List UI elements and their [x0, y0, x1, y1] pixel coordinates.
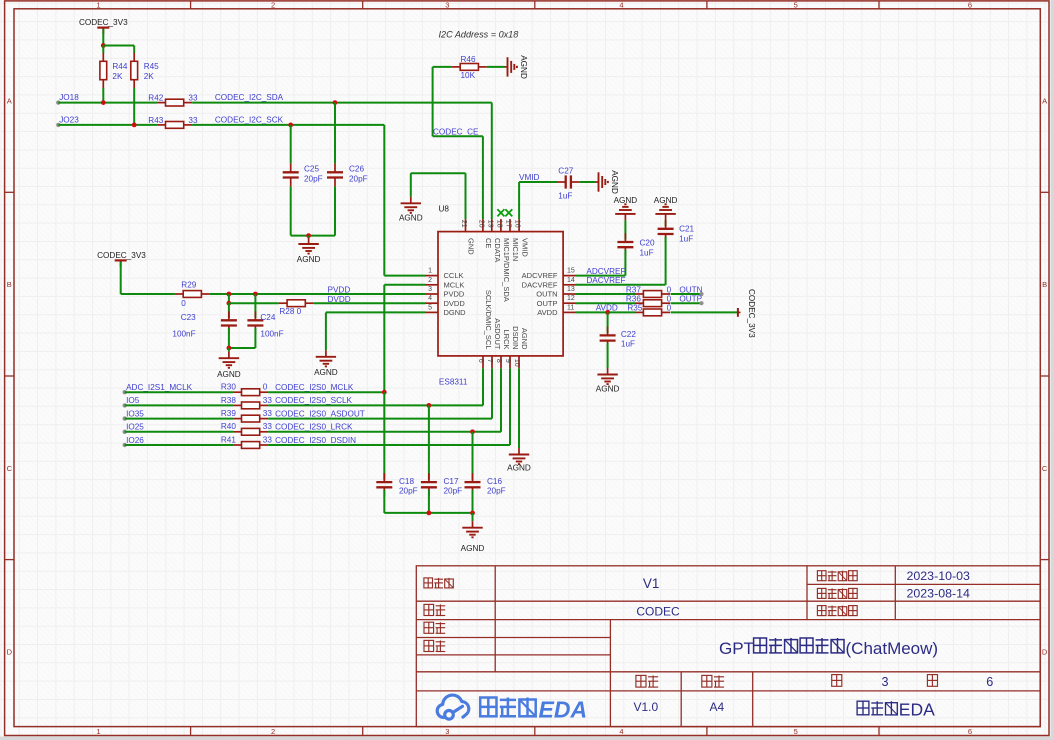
capacitor C21	[665, 220, 667, 226]
wire DSDIN corner to pin9	[509, 368, 511, 445]
title label 页	[832, 675, 842, 687]
svg-text:AGND: AGND	[519, 55, 528, 79]
resistor R43	[157, 124, 165, 126]
svg-text:CODEC_I2S0_LRCK: CODEC_I2S0_LRCK	[275, 423, 353, 432]
port JO23	[56, 123, 60, 127]
svg-text:R30: R30	[221, 383, 236, 392]
wire JO18 to R42	[58, 102, 157, 104]
pins U8 bottom stubs	[483, 356, 519, 368]
ground AGND below C23	[228, 348, 230, 352]
wire SCK down to CCLK	[383, 125, 385, 276]
svg-text:DVDD: DVDD	[444, 299, 466, 308]
wire AGND pin10 down	[518, 368, 520, 448]
svg-text:U8: U8	[439, 204, 450, 213]
port OUTN	[699, 292, 703, 296]
svg-text:SCLK/DMIC_SCL: SCLK/DMIC_SCL	[484, 290, 493, 350]
wire R36 to OUTP port	[671, 302, 702, 304]
svg-text:20pF: 20pF	[399, 487, 418, 496]
svg-text:CODEC_I2S0_MCLK: CODEC_I2S0_MCLK	[275, 383, 354, 392]
ground AGND below caps	[472, 513, 474, 521]
resistor R28	[279, 302, 287, 304]
wire R35 to CODEC_3V3	[671, 311, 738, 313]
svg-text:6: 6	[968, 727, 972, 736]
svg-text:DSDIN: DSDIN	[511, 326, 520, 349]
svg-text:C: C	[1042, 464, 1048, 473]
svg-text:OUTP: OUTP	[537, 299, 558, 308]
svg-text:1: 1	[428, 268, 432, 275]
svg-text:JO23: JO23	[59, 116, 79, 125]
svg-text:AGND: AGND	[596, 384, 620, 393]
svg-text:2: 2	[271, 1, 275, 10]
frame row letters right	[1042, 97, 1048, 657]
svg-text:4: 4	[619, 727, 623, 736]
svg-text:C20: C20	[640, 238, 655, 247]
svg-text:7: 7	[486, 359, 493, 363]
port JO18	[56, 100, 60, 104]
svg-text:R40: R40	[221, 422, 236, 431]
wire LRCK corner to pin8	[500, 368, 502, 432]
title label 尺寸	[702, 675, 724, 687]
wire CODEC_I2C_SDA	[192, 102, 492, 104]
svg-text:2023-08-14: 2023-08-14	[907, 587, 970, 601]
svg-text:MIC1N: MIC1N	[511, 238, 520, 261]
svg-text:R36: R36	[626, 295, 641, 304]
svg-text:100nF: 100nF	[260, 329, 283, 338]
title label 图页	[424, 604, 445, 615]
resistor R46	[452, 66, 460, 68]
frame row ticks left	[5, 192, 14, 559]
svg-text:18: 18	[496, 220, 503, 228]
svg-text:9: 9	[504, 359, 511, 363]
svg-text:R37: R37	[626, 285, 641, 294]
title label 原理图	[424, 578, 454, 588]
svg-text:C24: C24	[260, 313, 275, 322]
svg-text:20pF: 20pF	[349, 174, 368, 183]
node junction AVDD C22	[605, 310, 610, 315]
svg-text:1uF: 1uF	[558, 192, 572, 201]
frame row ticks right	[1040, 192, 1049, 559]
wire C20 to ADCVREF	[624, 250, 626, 276]
wire caps bottom rail	[383, 490, 385, 513]
svg-text:CDATA: CDATA	[493, 238, 502, 262]
node junction R44-SDA	[101, 100, 106, 105]
wire R46 right to AGND	[487, 66, 505, 68]
port IO5	[123, 403, 127, 407]
no-connect X pin 18	[497, 209, 504, 216]
wire C25/C26 bottoms join	[291, 235, 335, 237]
capacitor C27	[557, 181, 566, 183]
wire OUTP pin12	[576, 302, 636, 304]
wire R28 to DVDD pin4	[314, 302, 426, 304]
wire IO25 to R40	[125, 431, 233, 433]
capacitor C20	[624, 220, 626, 239]
wire R46 left corner	[433, 66, 452, 68]
svg-text:(ChatMeow): (ChatMeow)	[846, 639, 939, 658]
svg-text:13: 13	[567, 286, 575, 293]
svg-text:5: 5	[428, 304, 432, 311]
svg-text:3: 3	[445, 727, 449, 736]
svg-text:0: 0	[667, 304, 672, 313]
node junction PVDD C24 branch	[253, 292, 258, 297]
svg-text:CODEC_3V3: CODEC_3V3	[747, 289, 756, 338]
svg-text:DACVREF: DACVREF	[522, 280, 558, 289]
svg-text:R38: R38	[221, 396, 236, 405]
svg-text:0: 0	[667, 285, 672, 294]
title label 更新日期	[817, 571, 857, 581]
svg-text:R42: R42	[148, 94, 163, 103]
svg-text:VMID: VMID	[519, 173, 540, 182]
wire SCLK corner to pin6	[482, 368, 484, 405]
svg-text:ASDOUT: ASDOUT	[493, 318, 502, 350]
wire C27 to AGND	[580, 181, 596, 183]
svg-text:2: 2	[271, 727, 275, 736]
no-connect X pin 17	[505, 209, 512, 216]
capacitor C26	[334, 103, 336, 164]
svg-text:C25: C25	[304, 165, 319, 174]
svg-text:DACVREF: DACVREF	[586, 276, 625, 285]
wire ADC_I2S1_MCLK to R30	[125, 391, 233, 393]
svg-text:AGND: AGND	[314, 368, 338, 377]
node junction C23 AGND	[227, 346, 232, 351]
svg-text:IO5: IO5	[126, 396, 140, 405]
power flag CODEC_3V3 right (rotated)	[737, 308, 739, 317]
wire DGND pin5 to AGND	[326, 311, 426, 313]
svg-text:33: 33	[263, 396, 273, 405]
title block grid	[416, 566, 1040, 727]
svg-text:CE: CE	[484, 238, 493, 248]
svg-text:V1: V1	[643, 576, 660, 591]
svg-text:20: 20	[478, 220, 485, 228]
svg-text:33: 33	[263, 435, 273, 444]
svg-text:A: A	[7, 97, 12, 106]
node junction C25-SCK	[288, 123, 293, 128]
node junction LRCK C16	[470, 429, 475, 434]
wire C23/C24 bottoms join	[228, 328, 230, 348]
wire CODEC_I2S0_SCLK	[268, 404, 483, 406]
svg-text:CODEC_3V3: CODEC_3V3	[79, 18, 128, 27]
svg-text:1: 1	[96, 1, 100, 10]
pins U8 left stubs	[426, 276, 439, 313]
svg-text:JO18: JO18	[59, 93, 79, 102]
resistor R38	[233, 404, 241, 406]
svg-text:B: B	[7, 280, 12, 289]
svg-text:B: B	[1042, 280, 1047, 289]
svg-text:IO25: IO25	[126, 423, 144, 432]
svg-text:R39: R39	[221, 409, 236, 418]
wire CODEC_CE to pin 20	[433, 135, 483, 137]
frame row letters left	[7, 97, 13, 657]
svg-text:C16: C16	[487, 477, 502, 486]
capacitor C25	[290, 125, 292, 163]
svg-text:DVDD: DVDD	[328, 295, 351, 304]
svg-text:C: C	[7, 464, 13, 473]
svg-text:14: 14	[567, 277, 575, 284]
wire DVDD row	[228, 294, 230, 303]
ground AGND left of U8	[410, 197, 412, 204]
svg-text:C18: C18	[399, 477, 414, 486]
node junction C26-SDA	[333, 100, 338, 105]
svg-text:10K: 10K	[461, 71, 476, 80]
title label 绘制	[424, 622, 445, 633]
svg-text:ADCVREF: ADCVREF	[586, 267, 625, 276]
node junction MCLK C18	[382, 390, 387, 395]
svg-text:A4: A4	[710, 700, 725, 714]
svg-text:33: 33	[188, 94, 198, 103]
svg-text:OUTP: OUTP	[679, 295, 702, 304]
ground AGND right of R46 (rotated)	[505, 66, 508, 68]
resistor R29	[175, 293, 183, 295]
title value 嘉立创EDA	[857, 701, 897, 715]
svg-text:C27: C27	[558, 167, 573, 176]
svg-text:IO26: IO26	[126, 436, 144, 445]
port OUTP	[699, 301, 703, 305]
svg-text:10: 10	[513, 359, 520, 367]
wire R44 bottom to SDA junction	[102, 88, 104, 103]
svg-text:2K: 2K	[144, 72, 155, 81]
svg-text:R41: R41	[221, 435, 236, 444]
svg-text:V1.0: V1.0	[633, 700, 658, 714]
svg-text:5: 5	[794, 1, 798, 10]
svg-text:12: 12	[567, 295, 575, 302]
wire IO5 to R38	[125, 404, 233, 406]
svg-text:15: 15	[567, 268, 575, 275]
node junction C17 rail	[427, 511, 432, 516]
port IO35	[123, 416, 127, 420]
wire ADCVREF pin15	[576, 275, 626, 277]
svg-text:D: D	[7, 648, 13, 657]
resistor R44	[102, 53, 104, 61]
svg-text:PVDD: PVDD	[328, 285, 351, 294]
ground AGND below C22	[607, 368, 609, 375]
title label 创建日期	[817, 588, 857, 598]
svg-text:11: 11	[567, 304, 574, 311]
svg-text:20pF: 20pF	[304, 174, 323, 183]
wire IO35 to R39	[125, 418, 233, 420]
wire CODEC_I2S0_LRCK	[268, 431, 501, 433]
node junction C16 rail	[470, 511, 475, 516]
svg-text:R43: R43	[148, 116, 163, 125]
wire CODEC_I2S0_ASDOUT	[268, 418, 492, 420]
svg-text:0: 0	[263, 383, 268, 392]
svg-text:CODEC_I2S0_DSDIN: CODEC_I2S0_DSDIN	[275, 436, 356, 445]
wire SDA down to pin 19 CDATA	[491, 103, 493, 220]
svg-text:R35: R35	[627, 304, 642, 313]
svg-text:AGND: AGND	[217, 370, 241, 379]
svg-text:DGND: DGND	[444, 308, 467, 317]
svg-text:C21: C21	[679, 224, 694, 233]
svg-text:ES8311: ES8311	[439, 377, 468, 386]
power flag CODEC_3V3 top-left	[97, 27, 109, 29]
resistor R40	[233, 431, 241, 433]
svg-text:1uF: 1uF	[679, 234, 693, 243]
svg-text:CODEC_I2S0_ASDOUT: CODEC_I2S0_ASDOUT	[275, 409, 365, 418]
svg-text:D: D	[1042, 648, 1048, 657]
node junction PVDD C23 branch	[227, 292, 232, 297]
wire ASDOUT corner to pin7	[491, 368, 493, 418]
svg-text:CODEC: CODEC	[636, 605, 680, 619]
logo cloud icon	[437, 695, 469, 719]
svg-text:A: A	[1042, 97, 1047, 106]
svg-text:1: 1	[96, 727, 100, 736]
svg-text:MCLK: MCLK	[444, 280, 465, 289]
wire CODEC_I2C_SCK	[192, 124, 384, 126]
node junction C25-C26 AGND	[306, 233, 311, 238]
frame column numbers top	[96, 1, 972, 10]
svg-text:3: 3	[445, 1, 449, 10]
svg-text:I2C Address = 0x18: I2C Address = 0x18	[439, 30, 519, 40]
svg-text:33: 33	[263, 422, 273, 431]
resistor R37	[635, 293, 643, 295]
title label 版本	[636, 675, 658, 687]
svg-text:MIC1P/DMIC_SDA: MIC1P/DMIC_SDA	[502, 238, 511, 302]
op-amp U8 ES8311 body	[438, 232, 563, 356]
svg-text:OUTN: OUTN	[679, 285, 702, 294]
svg-text:IO35: IO35	[126, 409, 144, 418]
node junction R45-SCK	[132, 123, 137, 128]
svg-text:R29: R29	[181, 280, 196, 289]
svg-text:R45: R45	[144, 62, 159, 71]
wire R37 to OUTN port	[671, 293, 702, 295]
svg-text:AGND: AGND	[610, 170, 619, 194]
svg-text:100nF: 100nF	[172, 329, 195, 338]
svg-text:2023-10-03: 2023-10-03	[907, 569, 970, 583]
pins U8 right stubs	[563, 276, 575, 313]
wire CODEC_I2S0_DSDIN	[268, 444, 510, 446]
resistor R35	[635, 311, 643, 313]
wire JO23 to R43	[58, 124, 157, 126]
svg-text:3: 3	[881, 675, 888, 689]
wire C21 to DACVREF	[665, 237, 667, 285]
svg-text:1uF: 1uF	[640, 248, 654, 257]
svg-text:R46: R46	[461, 55, 476, 64]
svg-text:AGND: AGND	[520, 328, 529, 350]
svg-text:16: 16	[514, 220, 521, 228]
capacitor C16	[472, 432, 474, 480]
svg-text:2: 2	[428, 277, 432, 284]
wire R45 bottom to SCK junction	[133, 88, 135, 125]
ground AGND below pin10	[518, 448, 520, 455]
svg-text:C17: C17	[444, 477, 459, 486]
power flag CODEC_3V3 left-middle	[115, 259, 127, 261]
svg-text:C26: C26	[349, 165, 364, 174]
port ADC_I2S1_MCLK	[123, 390, 127, 394]
svg-text:33: 33	[263, 409, 273, 418]
svg-text:0: 0	[181, 299, 186, 308]
ground AGND right of C27 (rotated)	[596, 181, 599, 183]
port IO25	[123, 430, 127, 434]
svg-text:C22: C22	[621, 330, 636, 339]
wire VMID pin16 to C27	[518, 182, 520, 219]
svg-text:GPT: GPT	[719, 639, 754, 658]
svg-text:CODEC_3V3: CODEC_3V3	[97, 251, 146, 260]
node junction R44/R45 top	[101, 43, 106, 48]
svg-text:33: 33	[188, 116, 198, 125]
svg-text:AGND: AGND	[507, 464, 531, 473]
svg-text:3: 3	[428, 286, 432, 293]
wire AVDD pin11	[576, 311, 636, 313]
wire CODEC_3V3 down and right to R29	[120, 262, 122, 294]
title label 审阅	[424, 640, 445, 651]
title label 共	[927, 675, 937, 687]
ground AGND below DGND	[325, 350, 327, 357]
resistor R45	[133, 53, 135, 61]
svg-text:6: 6	[968, 1, 972, 10]
svg-text:EDA: EDA	[539, 697, 588, 723]
svg-text:2K: 2K	[112, 72, 123, 81]
svg-text:1uF: 1uF	[621, 340, 635, 349]
svg-text:ADCVREF: ADCVREF	[522, 271, 558, 280]
svg-text:CCLK: CCLK	[444, 271, 464, 280]
svg-text:CODEC_I2C_SDA: CODEC_I2C_SDA	[215, 93, 284, 102]
wire IO26 to R41	[125, 444, 233, 446]
resistor R41	[233, 444, 241, 446]
svg-text:AVDD: AVDD	[537, 308, 558, 317]
pins U8 top stubs	[466, 219, 520, 232]
svg-text:CODEC_I2S0_SCLK: CODEC_I2S0_SCLK	[275, 396, 352, 405]
svg-text:0: 0	[667, 295, 672, 304]
capacitor C23	[228, 303, 230, 318]
resistor R30	[233, 391, 241, 393]
capacitor C17	[428, 405, 430, 479]
svg-text:LRCK: LRCK	[502, 329, 511, 349]
ground AGND below C25/C26	[308, 236, 310, 238]
svg-text:4: 4	[619, 1, 623, 10]
frame column ticks top	[191, 1, 879, 9]
svg-text:AGND: AGND	[297, 255, 321, 264]
svg-text:AGND: AGND	[399, 214, 423, 223]
wire AGND to pin 21	[411, 172, 466, 174]
svg-text:R44: R44	[112, 62, 127, 71]
wire MCLK up to pin2	[383, 285, 385, 392]
svg-text:GND: GND	[467, 238, 476, 255]
title label 物料编码	[817, 606, 857, 616]
wire CODEC_3V3 to junction	[102, 29, 104, 46]
wire DACVREF pin14	[576, 284, 666, 286]
svg-text:4: 4	[428, 295, 432, 302]
svg-text:17: 17	[505, 220, 512, 228]
node junction SCLK C17	[427, 403, 432, 408]
port IO26	[123, 443, 127, 447]
resistor R39	[233, 418, 241, 420]
resistor R42	[157, 102, 165, 104]
svg-text:VMID: VMID	[520, 238, 529, 257]
capacitor C22	[607, 312, 609, 333]
svg-text:PVDD: PVDD	[444, 290, 465, 299]
frame column ticks bottom	[191, 727, 879, 736]
svg-text:5: 5	[794, 727, 798, 736]
capacitor C24	[254, 294, 256, 318]
svg-text:AGND: AGND	[461, 544, 485, 553]
wire C22 to AGND	[607, 343, 609, 368]
svg-text:ADC_I2S1_MCLK: ADC_I2S1_MCLK	[126, 383, 193, 392]
svg-text:CODEC_I2C_SCK: CODEC_I2C_SCK	[215, 116, 284, 125]
svg-text:EDA: EDA	[899, 699, 935, 719]
wire OUTN pin13	[576, 293, 636, 295]
svg-text:21: 21	[460, 220, 467, 228]
svg-text:20pF: 20pF	[444, 487, 463, 496]
frame column numbers bottom	[96, 727, 972, 736]
svg-text:6: 6	[986, 675, 993, 689]
svg-text:OUTN: OUTN	[536, 290, 557, 299]
svg-text:19: 19	[486, 220, 493, 228]
capacitor C18	[383, 392, 385, 479]
svg-text:6: 6	[477, 359, 484, 363]
wire junction to R45 top	[103, 45, 134, 47]
wire junction down to R44	[102, 46, 104, 54]
svg-text:R28 0: R28 0	[279, 307, 301, 316]
resistor R36	[635, 302, 643, 304]
logo text 嘉立创EDA	[480, 698, 536, 717]
